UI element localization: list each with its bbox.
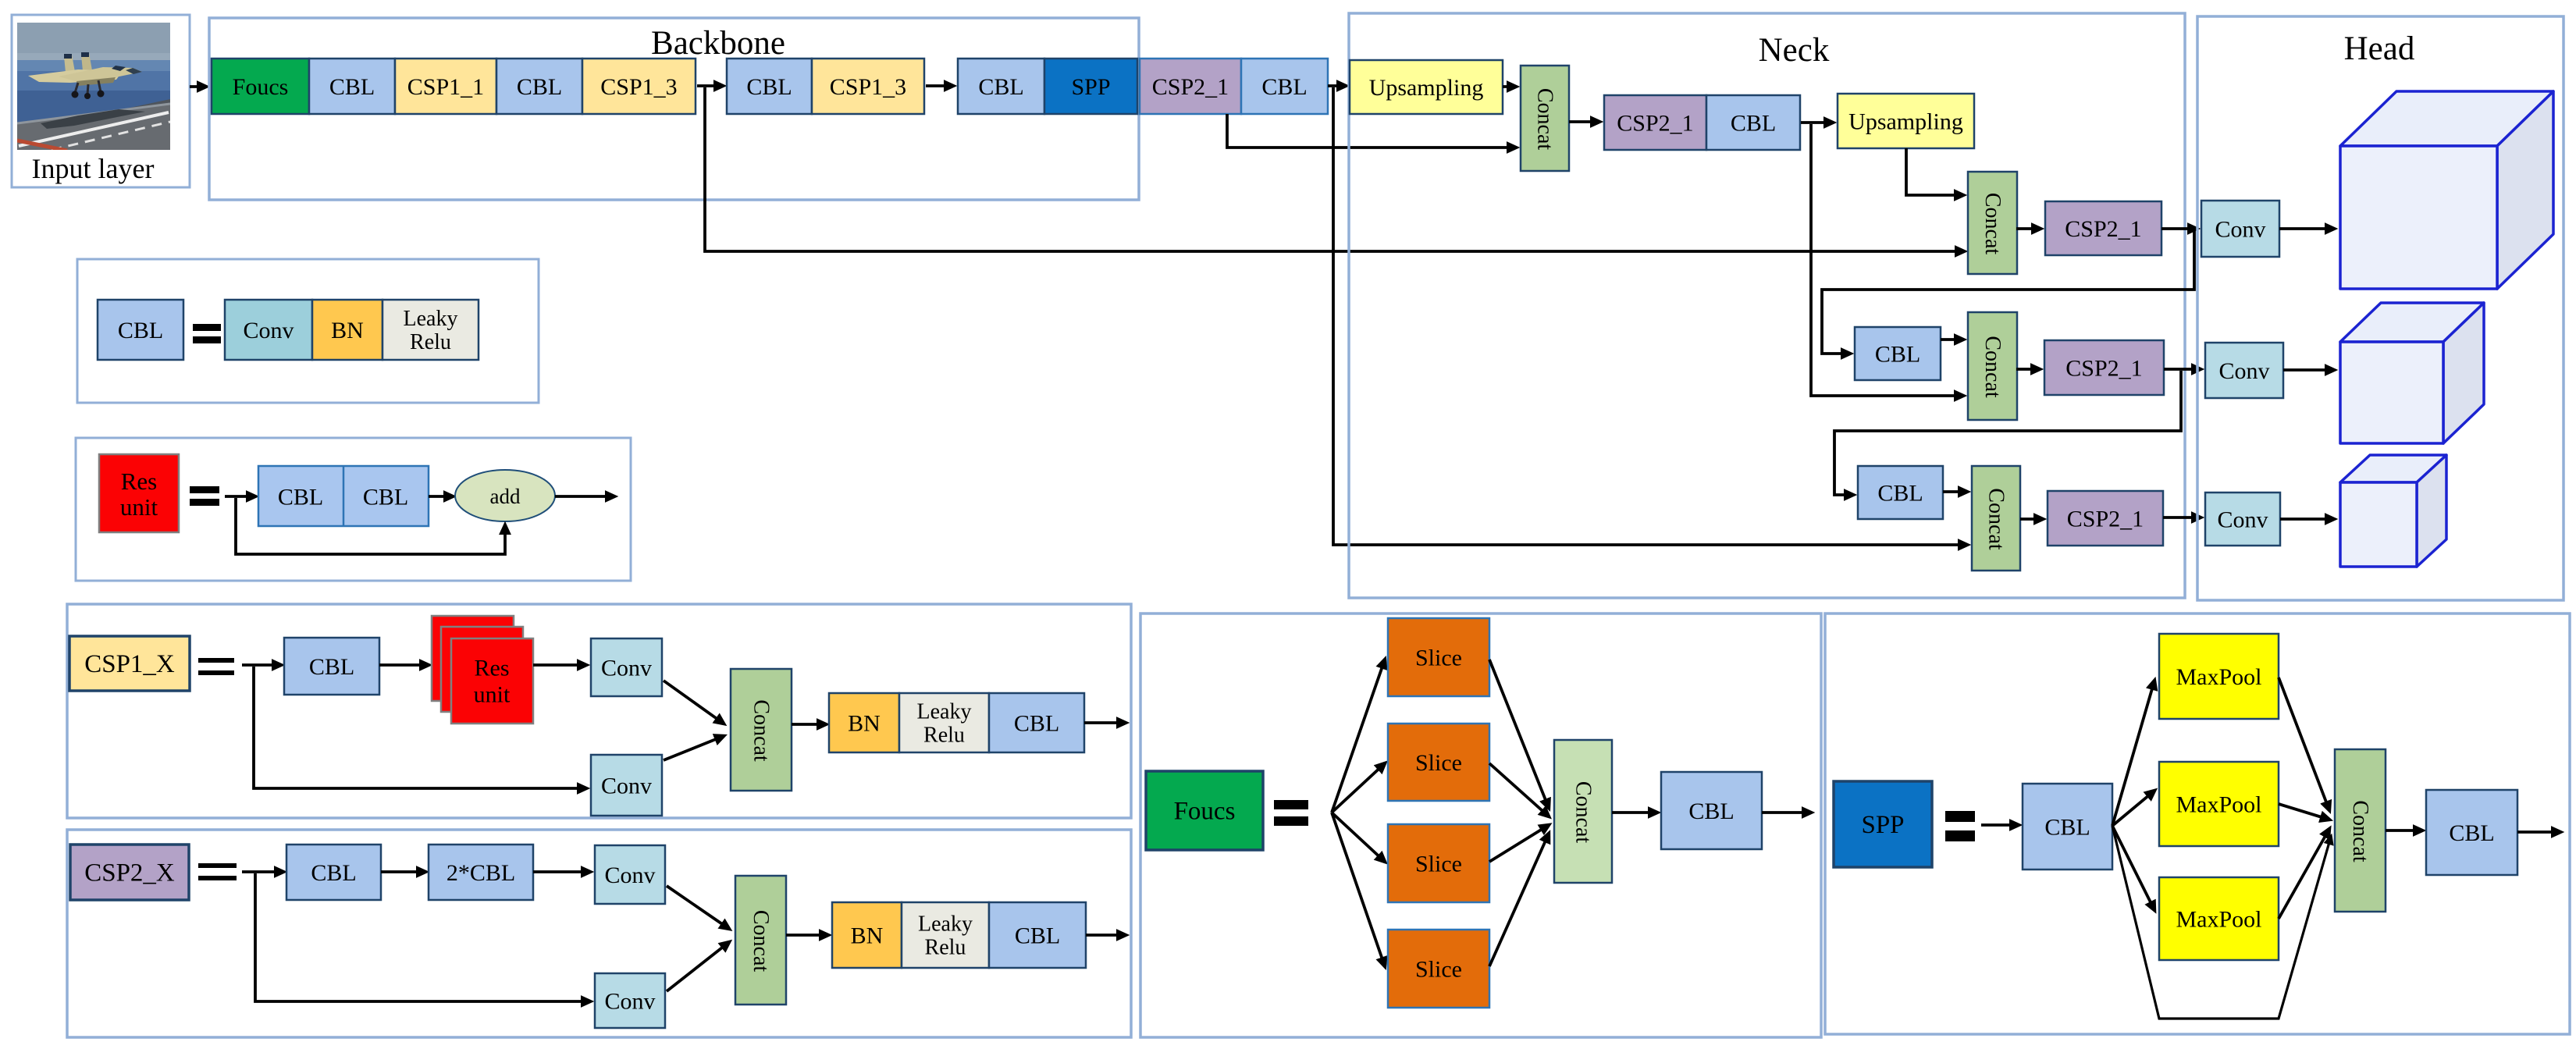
- block CBL row3 (neck): [1858, 466, 1943, 519]
- arrow Foucs output: [1762, 811, 1811, 814]
- arrow Conv3->cube3: [2280, 517, 2334, 521]
- block CSP2_1 b (neck): [1604, 95, 1706, 150]
- svg-text:Backbone: Backbone: [651, 25, 785, 62]
- arrow into CBL pair: [225, 495, 255, 498]
- arrow fan to Slice3: [1332, 813, 1385, 862]
- block CBL (CSP1_X): [284, 638, 379, 695]
- arrow MaxPool1->Concat (SPP): [2279, 677, 2329, 810]
- block Slice 2 (Foucs): [1388, 724, 1489, 801]
- svg-text:Concat: Concat: [1980, 336, 2005, 398]
- svg-text:Leaky: Leaky: [404, 307, 458, 331]
- svg-text:Conv: Conv: [2218, 358, 2269, 384]
- svg-text:CBL: CBL: [1014, 711, 1059, 737]
- svg-text:CSP1_3: CSP1_3: [830, 74, 906, 100]
- svg-text:unit: unit: [474, 682, 511, 708]
- wire CBL6 branch down to Concat row2: [1811, 124, 1963, 396]
- svg-text:Concat: Concat: [1533, 88, 1557, 151]
- input layer outer box: [12, 15, 190, 187]
- block CSP2_1 a (after backbone): [1140, 59, 1241, 114]
- legend box Res unit definition: [76, 438, 631, 581]
- wire skip connection to add: [236, 498, 505, 554]
- block Slice 3 (Foucs): [1388, 824, 1489, 902]
- arrow CBL5->Upsampling1: [1328, 84, 1346, 87]
- svg-text:CBL: CBL: [1015, 923, 1060, 949]
- arrow fan to MaxPool2: [2112, 791, 2154, 826]
- block CBL (Foucs): [1661, 772, 1762, 849]
- block CSP2_1 row3 (neck): [2048, 491, 2163, 546]
- arrow Concat->CBL (SPP): [2386, 829, 2422, 832]
- svg-text:CBL: CBL: [1688, 798, 1734, 824]
- arrow CSP2_1row2->Conv2: [2164, 368, 2201, 371]
- block Conv row2 (head): [2205, 343, 2283, 398]
- block Conv lower (CSP2_X): [595, 973, 665, 1028]
- wire lower branch to Conv (CSP1_X): [254, 667, 586, 788]
- svg-text:Conv: Conv: [604, 862, 655, 888]
- arrow Concatrow2->CSP2_1 row2: [2016, 368, 2040, 371]
- block CSP1_3 b (backbone): [812, 59, 924, 114]
- legend box CBL definition: [77, 259, 539, 403]
- arrow CSP2_1row1->Conv1: [2161, 227, 2197, 230]
- svg-text:CSP1_3: CSP1_3: [600, 74, 677, 100]
- block Conv row3 (head): [2205, 493, 2280, 546]
- block CSP1_1 (backbone): [395, 59, 496, 114]
- wire CSP2_1 row1 branch to CBL row2: [1822, 230, 2194, 354]
- arrow CBL6->Upsampling2: [1801, 121, 1833, 124]
- backbone outer box: [209, 18, 1139, 200]
- svg-text:Relu: Relu: [925, 936, 966, 960]
- arrow Res unit->Conv (CSP1_X): [533, 663, 586, 667]
- arrow Slice1->Concat (Foucs): [1489, 660, 1549, 808]
- svg-text:CSP2_1: CSP2_1: [2065, 356, 2142, 382]
- arrow Concatrow3->CSP2_1 row3: [2020, 517, 2043, 521]
- equals sign (CBL legend): [193, 324, 221, 343]
- svg-text:unit: unit: [120, 493, 158, 521]
- block Leaky Relu (legend): [382, 300, 479, 360]
- svg-text:CSP2_1: CSP2_1: [1617, 111, 1693, 137]
- arrow CSP2_1row3->Conv3: [2163, 516, 2201, 519]
- arrow into CBL (CSP2_X): [242, 870, 283, 873]
- block Upsampling 1 (neck): [1350, 60, 1503, 114]
- arrow into CBL (CSP1_X): [242, 663, 281, 667]
- block CBL 6 (neck): [1706, 95, 1800, 150]
- arrow into CBL (SPP): [1981, 823, 2019, 827]
- arrow CBLrow2->Concat row2: [1941, 338, 1963, 341]
- block CBL (CSP2_X): [286, 845, 381, 900]
- block Res unit (legend): [99, 454, 179, 532]
- block Concat (CSP1_X): [731, 669, 792, 791]
- svg-text:CBL: CBL: [329, 74, 375, 100]
- arrow Conv2->cube2: [2283, 368, 2334, 372]
- block CSP2_X label: [70, 845, 189, 900]
- input layer photo (aircraft over carrier deck): [17, 23, 170, 151]
- svg-text:CBL: CBL: [1877, 481, 1923, 507]
- svg-text:CBL: CBL: [978, 74, 1023, 100]
- arrow fan to MaxPool3: [2112, 826, 2154, 910]
- arrow Concat->CBL (Foucs): [1612, 811, 1657, 814]
- block CBL (legend): [98, 300, 183, 360]
- block CBL 4 (backbone): [958, 59, 1044, 114]
- arrow Slice4->Concat (Foucs): [1489, 834, 1549, 966]
- arrow Conv upper->Concat (CSP2_X): [667, 886, 729, 929]
- block Upsampling 2 (neck): [1838, 94, 1974, 148]
- svg-text:CSP1_X: CSP1_X: [84, 650, 175, 678]
- neck outer box: [1349, 13, 2185, 598]
- block CBL CBL pair (res unit legend): [258, 466, 429, 526]
- svg-text:Concat: Concat: [749, 699, 774, 762]
- arrow fan to Slice2: [1332, 763, 1385, 813]
- block CSP2_1 row1 (neck): [2045, 201, 2161, 255]
- svg-text:Conv: Conv: [2217, 507, 2268, 533]
- equals sign (CSP1_X): [198, 658, 234, 675]
- svg-text:CBL: CBL: [1875, 342, 1920, 368]
- arrow Conv lower->Concat (CSP2_X): [667, 942, 729, 991]
- svg-text:Res: Res: [121, 468, 158, 495]
- block Leaky Relu (CSP1_X): [899, 693, 989, 752]
- svg-text:Concat: Concat: [1984, 488, 2008, 550]
- arrow Upsampling1->Concat1: [1503, 85, 1516, 88]
- block 2*CBL (CSP2_X): [429, 845, 533, 900]
- arrow Slice2->Concat (Foucs): [1489, 763, 1549, 816]
- arrow CSP1_3b->CBL4: [926, 84, 953, 87]
- block CBL row2 (neck): [1855, 327, 1941, 380]
- svg-text:CBL: CBL: [311, 860, 356, 886]
- svg-text:CSP1_1: CSP1_1: [407, 74, 484, 100]
- wire bypass below MaxPools (SPP): [2112, 826, 2331, 1019]
- section box SPP definition: [1825, 613, 2570, 1034]
- arrow Concat2->CSP2_1 row1: [2016, 227, 2041, 230]
- block CSP2_1 row2 (neck): [2044, 340, 2164, 395]
- block CBL 2 (backbone): [496, 59, 582, 114]
- wire CBL5 branch down to Concat row3: [1333, 87, 1967, 545]
- svg-text:BN: BN: [851, 923, 884, 949]
- block Conv (legend): [225, 300, 312, 360]
- arrow MaxPool3->Concat (SPP): [2279, 829, 2329, 919]
- svg-text:Concat: Concat: [749, 910, 773, 973]
- svg-text:MaxPool: MaxPool: [2176, 907, 2261, 933]
- svg-text:SPP: SPP: [1861, 811, 1904, 839]
- svg-text:CBL: CBL: [309, 654, 354, 680]
- svg-text:CSP2_1: CSP2_1: [2067, 507, 2144, 532]
- section box CSP1_X definition: [67, 604, 1131, 818]
- arrow 2*CBL->Conv (CSP2_X): [533, 870, 590, 873]
- block SPP (backbone): [1044, 59, 1137, 114]
- block Concat row3 (neck): [1972, 466, 2020, 571]
- block Slice 1 (Foucs): [1388, 618, 1489, 696]
- arrow CBL pair->add: [429, 495, 453, 498]
- svg-text:CBL: CBL: [118, 318, 163, 343]
- svg-text:CBL: CBL: [1731, 111, 1776, 137]
- head outer box: [2197, 16, 2564, 600]
- svg-text:BN: BN: [331, 318, 364, 343]
- svg-text:CBL: CBL: [746, 74, 792, 100]
- svg-text:CSP2_X: CSP2_X: [84, 859, 175, 887]
- block Conv upper (CSP2_X): [595, 845, 665, 904]
- output cube 2 (medium feature map): [2340, 303, 2484, 443]
- block CBL 1 (backbone): [309, 59, 395, 114]
- svg-text:Conv: Conv: [601, 773, 652, 799]
- block Concat 2 (neck): [1968, 172, 2017, 274]
- block SPP label: [1834, 781, 1932, 867]
- svg-text:CSP2_1: CSP2_1: [1152, 74, 1229, 100]
- svg-text:Upsampling: Upsampling: [1369, 75, 1484, 101]
- block Concat row2 (neck): [1968, 312, 2017, 420]
- block MaxPool 1 (SPP): [2159, 634, 2279, 719]
- svg-text:Concat: Concat: [1571, 781, 1596, 844]
- block Res unit stack (CSP1_X): [432, 616, 533, 724]
- block Foucs label: [1146, 771, 1263, 850]
- arrow input->Foucs: [190, 85, 206, 88]
- block BN (CSP2_X): [832, 902, 902, 968]
- arrow SPP output: [2517, 830, 2560, 834]
- svg-text:MaxPool: MaxPool: [2176, 792, 2261, 818]
- svg-text:Res: Res: [475, 656, 510, 681]
- block CBL out (CSP2_X): [989, 902, 1086, 968]
- svg-text:Slice: Slice: [1415, 957, 1462, 983]
- arrow Conv upper->Concat (CSP1_X): [664, 681, 724, 724]
- section box Foucs definition: [1140, 613, 1821, 1037]
- block BN (legend): [312, 300, 382, 360]
- svg-text:add: add: [490, 485, 521, 508]
- block Foucs (backbone): [212, 59, 309, 114]
- svg-text:Conv: Conv: [601, 656, 652, 681]
- block CBL out (CSP1_X): [989, 693, 1084, 752]
- block MaxPool 2 (SPP): [2159, 762, 2279, 846]
- svg-text:Leaky: Leaky: [918, 912, 973, 936]
- svg-text:Slice: Slice: [1415, 645, 1462, 671]
- block Conv upper (CSP1_X): [591, 638, 662, 696]
- svg-text:CBL: CBL: [1261, 74, 1307, 100]
- block Concat (Foucs): [1554, 740, 1612, 883]
- block Concat (CSP2_X): [735, 876, 786, 1005]
- equals sign (CSP2_X): [198, 863, 237, 880]
- arrow Slice3->Concat (Foucs): [1489, 825, 1549, 862]
- svg-text:Neck: Neck: [1759, 32, 1830, 69]
- arrow Concat->BN (CSP1_X): [792, 723, 826, 726]
- arrow fan to Slice1: [1332, 660, 1385, 813]
- svg-text:Upsampling: Upsampling: [1848, 109, 1963, 135]
- block Leaky Relu (CSP2_X): [902, 902, 989, 968]
- arrow Conv1->cube1: [2279, 227, 2334, 230]
- svg-text:Conv: Conv: [2215, 217, 2265, 243]
- svg-text:Head: Head: [2344, 30, 2415, 67]
- wire CSP2_1 row2 branch to CBL row3: [1834, 371, 2181, 495]
- arrow CSP2_X output: [1086, 934, 1126, 937]
- block CSP1_X label: [69, 636, 190, 691]
- arrow CBL->2*CBL (CSP2_X): [381, 870, 425, 873]
- arrow fan to MaxPool1: [2112, 681, 2154, 826]
- block CSP1_3 a (backbone): [582, 59, 696, 114]
- svg-text:Input layer: Input layer: [32, 153, 155, 184]
- arrow add output: [555, 495, 614, 498]
- arrow CBL->Res unit (CSP1_X): [379, 663, 429, 667]
- equals sign (Foucs): [1274, 800, 1308, 826]
- svg-text:Relu: Relu: [923, 724, 965, 748]
- block CBL 3 (backbone): [727, 59, 812, 114]
- svg-text:MaxPool: MaxPool: [2176, 664, 2261, 690]
- block CBL 5 (after SPP): [1241, 59, 1328, 114]
- block BN (CSP1_X): [829, 693, 899, 752]
- section box CSP2_X definition: [67, 830, 1131, 1037]
- equals sign (Res unit legend): [190, 486, 219, 506]
- svg-text:Foucs: Foucs: [1174, 798, 1236, 826]
- svg-text:Conv: Conv: [604, 989, 655, 1015]
- arrow CSP1_3a->CBL3: [697, 84, 723, 87]
- svg-text:Slice: Slice: [1415, 852, 1462, 877]
- block CBL out (SPP): [2426, 790, 2517, 875]
- arrow MaxPool2->Concat (SPP): [2279, 804, 2329, 820]
- block MaxPool 3 (SPP): [2159, 877, 2279, 960]
- wire P3 branch CSP1_3a down to Concat2: [705, 87, 1964, 251]
- svg-text:CSP2_1: CSP2_1: [2065, 216, 2141, 242]
- svg-text:Foucs: Foucs: [233, 74, 289, 100]
- output cube 3 (small feature map): [2340, 455, 2446, 567]
- svg-text:Slice: Slice: [1415, 750, 1462, 776]
- svg-text:CBL: CBL: [278, 485, 323, 510]
- svg-text:BN: BN: [848, 711, 881, 737]
- arrow fan to Slice4: [1332, 813, 1385, 966]
- block Conv lower (CSP1_X): [591, 755, 662, 816]
- block Concat (SPP): [2335, 749, 2386, 912]
- arrow CSP1_X output: [1084, 721, 1126, 724]
- wire CSP2_1a branch down to Concat1: [1227, 114, 1516, 148]
- svg-text:CBL: CBL: [2449, 820, 2494, 846]
- svg-text:2*CBL: 2*CBL: [447, 860, 515, 886]
- svg-text:Conv: Conv: [243, 318, 294, 343]
- svg-text:CBL: CBL: [363, 485, 408, 510]
- arrow Conv lower->Concat (CSP1_X): [664, 736, 724, 760]
- svg-text:CBL: CBL: [2044, 815, 2090, 841]
- block CBL in (SPP): [2023, 784, 2112, 870]
- block add ellipse (res unit legend): [455, 470, 555, 521]
- svg-text:Concat: Concat: [2348, 800, 2372, 862]
- svg-text:CBL: CBL: [517, 74, 562, 100]
- output cube 1 (large feature map): [2340, 91, 2553, 289]
- svg-text:Leaky: Leaky: [917, 699, 972, 724]
- block Slice 4 (Foucs): [1388, 930, 1489, 1008]
- svg-text:Relu: Relu: [410, 330, 451, 354]
- equals sign (SPP): [1945, 811, 1975, 841]
- block Conv row1 (head): [2201, 201, 2279, 257]
- arrow Concat->BN (CSP2_X): [786, 934, 828, 937]
- svg-text:SPP: SPP: [1071, 74, 1110, 100]
- wire Upsampling2 elbow to Concat2: [1906, 148, 1963, 195]
- arrow Concat1->CSP2_1b: [1569, 120, 1599, 123]
- svg-text:Concat: Concat: [1980, 193, 2005, 255]
- block Concat 1 (neck): [1521, 66, 1569, 171]
- arrow CBLrow3->Concat row3: [1943, 490, 1967, 493]
- wire lower branch to Conv (CSP2_X): [255, 873, 590, 1001]
